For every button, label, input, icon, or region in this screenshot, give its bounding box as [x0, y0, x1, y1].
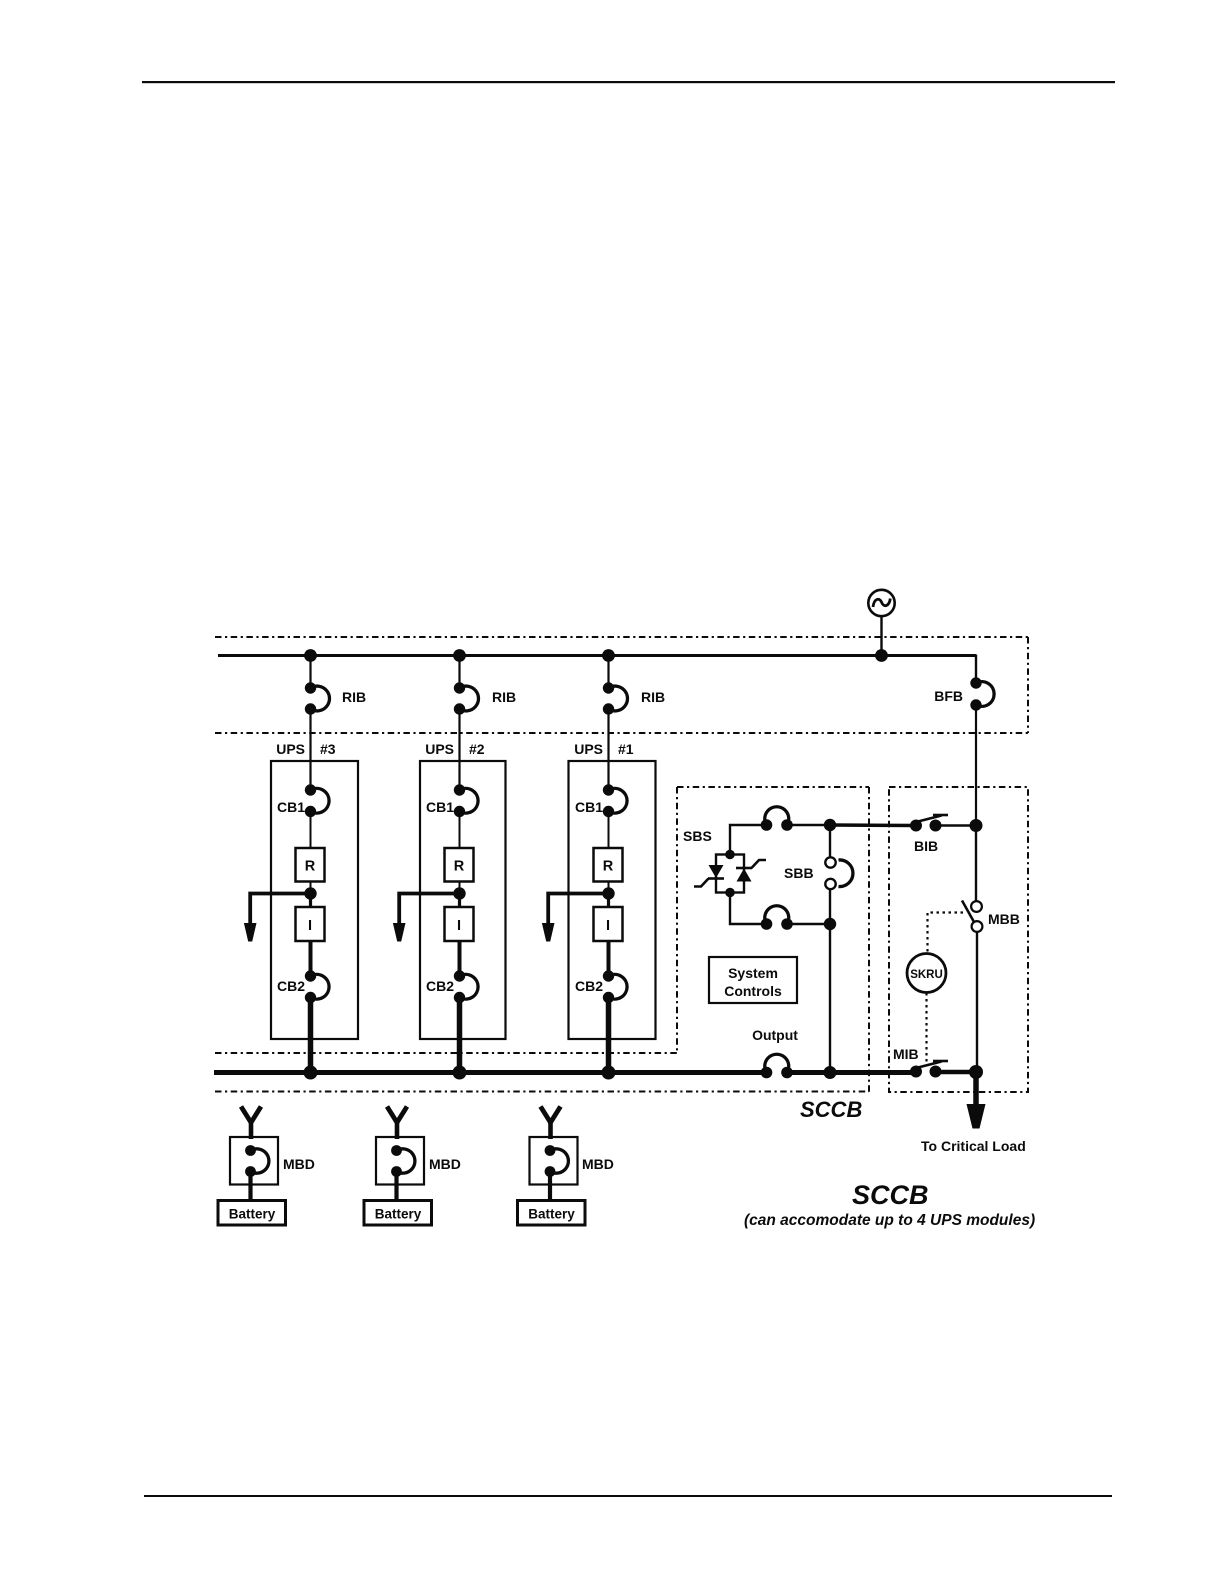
top page rule — [142, 81, 1115, 83]
wire CB1 to rectifier (UPS2) — [459, 812, 461, 849]
rectifier R (UPS3) — [296, 848, 325, 882]
breaker CB1 (UPS3) — [277, 784, 329, 817]
svg-text:CB2: CB2 — [575, 978, 603, 994]
svg-text:#3: #3 — [320, 741, 336, 757]
svg-text:UPS: UPS — [425, 741, 454, 757]
wire RIB to UPS3 CB1 — [309, 709, 311, 790]
AC source U-src — [868, 590, 894, 616]
svg-text:UPS: UPS — [276, 741, 305, 757]
thyristor pair (static switch) — [694, 850, 766, 898]
svg-text:SKRU: SKRU — [910, 969, 943, 981]
wire SBS-top right leg to node — [787, 824, 830, 826]
wire CB1 to rectifier (UPS3) — [310, 812, 312, 849]
node output bus / UPS2 — [453, 1066, 467, 1080]
wire inverter to CB2 (UPS3) — [309, 941, 313, 976]
wire SBS-bottom left leg — [730, 893, 767, 925]
svg-text:SCCB: SCCB — [800, 1097, 862, 1122]
wire node to inverter (UPS1) — [607, 894, 610, 908]
breaker CB1 (UPS1) — [575, 784, 627, 817]
wire MBD to battery 3 — [248, 1172, 252, 1202]
UPS module 3 enclosure — [271, 741, 358, 1039]
node output bus / UPS3 — [304, 1066, 318, 1080]
node DC link (UPS1) — [602, 887, 614, 899]
svg-text:Battery: Battery — [528, 1207, 575, 1222]
switch BIB — [910, 815, 948, 854]
wire inverter to CB2 (UPS1) — [607, 941, 611, 976]
svg-text:RIB: RIB — [492, 689, 516, 705]
svg-text:(can accomodate up to 4 UPS mo: (can accomodate up to 4 UPS modules) — [744, 1212, 1035, 1229]
wire SBB to bottom node — [829, 889, 831, 924]
svg-text:MBD: MBD — [429, 1156, 461, 1172]
input bus wire — [218, 654, 976, 657]
svg-text:I: I — [457, 918, 461, 934]
svg-text:I: I — [606, 918, 610, 934]
wire source to input bus — [880, 616, 882, 655]
wire MBD to battery 1 — [548, 1172, 552, 1202]
svg-text:#2: #2 — [469, 741, 485, 757]
battery string 3: disconnect fork — [241, 1107, 261, 1140]
wire BIB to vertical feeder — [936, 824, 977, 827]
svg-text:MBD: MBD — [283, 1156, 315, 1172]
svg-text:R: R — [454, 859, 465, 875]
wire CB2 to output bus (UPS1) — [606, 998, 612, 1075]
svg-text:CB1: CB1 — [426, 799, 454, 815]
breaker CB2 (UPS1) — [575, 970, 627, 1003]
breaker MBD (battery 2) — [376, 1137, 461, 1185]
breaker CB2 (UPS2) — [426, 970, 478, 1003]
wire RIB to UPS2 CB1 — [458, 709, 460, 790]
static bypass dash-dot box — [677, 787, 869, 1092]
svg-text:BFB: BFB — [934, 688, 963, 704]
breaker SBS-top — [761, 807, 793, 831]
wire node to BIB — [830, 823, 916, 827]
svg-text:I: I — [308, 918, 312, 934]
wire CB2 to output bus (UPS3) — [308, 998, 314, 1075]
switch MBB (open) — [962, 901, 1020, 932]
wire MIB to output node — [936, 1070, 977, 1075]
svg-text:System: System — [728, 965, 778, 981]
wire R to node (UPS3) — [310, 882, 312, 895]
node critical load tap — [969, 1065, 983, 1079]
output bus wire (left of MIB) — [214, 1070, 767, 1075]
wire R to node (UPS1) — [608, 882, 610, 895]
inverter I (UPS1) — [594, 907, 623, 941]
node input bus / source tap — [875, 649, 888, 662]
wire SBS-top left leg — [730, 825, 767, 855]
switch MIB — [893, 1046, 948, 1078]
breaker SBB (open) — [784, 857, 853, 889]
breaker Output — [761, 1054, 793, 1078]
breaker RIB (UPS1 feed) — [603, 655, 665, 715]
battery string 2: disconnect fork — [387, 1107, 407, 1140]
UPS area lower dash-dot boundary — [215, 1052, 677, 1054]
wire CB2 to output bus (UPS2) — [457, 998, 463, 1075]
svg-text:R: R — [305, 859, 316, 875]
node DC link (UPS2) — [453, 887, 465, 899]
control dotted line MBB to SKRU — [928, 913, 964, 954]
wire node down to MBB — [975, 826, 977, 902]
svg-text:Controls: Controls — [724, 983, 782, 999]
wire inverter to CB2 (UPS2) — [458, 941, 462, 976]
wire node to inverter (UPS3) — [309, 894, 312, 908]
UPS module 2 enclosure — [420, 741, 506, 1039]
svg-text:UPS: UPS — [574, 741, 603, 757]
wire node down to SBB — [829, 825, 831, 857]
wire BFB down to BIB node — [975, 705, 977, 826]
input switchgear dash-dot box — [215, 637, 1028, 733]
breaker CB2 (UPS3) — [277, 970, 329, 1003]
wire bus corner down to BFB — [975, 655, 977, 684]
SKRU unit — [907, 954, 946, 993]
svg-text:Battery: Battery — [375, 1207, 422, 1222]
battery 3 — [218, 1201, 286, 1226]
SCCB bottom dash-dot boundary — [215, 1091, 869, 1093]
breaker MBD (battery 1) — [530, 1137, 614, 1185]
wire DC-link arrow to battery bus (UPS3) — [250, 894, 310, 925]
control dotted line SKRU to MIB — [925, 993, 927, 1062]
battery 2 — [364, 1201, 432, 1226]
UPS module 1 enclosure — [569, 741, 656, 1039]
breaker RIB (UPS3 feed) — [305, 655, 366, 715]
node DC link (UPS3) — [304, 887, 316, 899]
wire bypass to output bus — [829, 924, 831, 1073]
node input bus / UPS3 tap — [304, 649, 317, 662]
svg-text:MBD: MBD — [582, 1156, 614, 1172]
node SBS top — [824, 819, 836, 831]
svg-text:MIB: MIB — [893, 1046, 919, 1062]
svg-text:SBB: SBB — [784, 865, 814, 881]
breaker RIB (UPS2 feed) — [454, 655, 516, 715]
inverter I (UPS3) — [296, 907, 325, 941]
svg-text:SCCB: SCCB — [852, 1180, 929, 1210]
svg-text:BIB: BIB — [914, 838, 938, 854]
svg-text:Battery: Battery — [229, 1207, 276, 1222]
rectifier R (UPS2) — [445, 848, 474, 882]
svg-text:RIB: RIB — [641, 689, 665, 705]
wire R to node (UPS2) — [459, 882, 461, 895]
wire DC-link arrow to battery bus (UPS1) — [548, 894, 608, 925]
breaker MBD (battery 3) — [230, 1137, 315, 1185]
wire to critical load arrow — [973, 1072, 979, 1104]
wire SBS-bottom right leg to node — [787, 923, 830, 925]
breaker SBS-bottom — [761, 906, 793, 930]
wire DC-link arrow to battery bus (UPS2) — [399, 894, 459, 925]
rectifier R (UPS1) — [594, 848, 623, 882]
breaker CB1 (UPS2) — [426, 784, 478, 817]
svg-text:MBB: MBB — [988, 911, 1020, 927]
svg-text:CB2: CB2 — [426, 978, 454, 994]
System Controls box — [709, 957, 797, 1003]
svg-text:RIB: RIB — [342, 689, 366, 705]
node output bus / UPS1 — [602, 1066, 616, 1080]
wire MBD to battery 2 — [394, 1172, 398, 1202]
inverter I (UPS2) — [445, 907, 474, 941]
node bypass / output bus — [824, 1066, 837, 1079]
battery 1 — [518, 1201, 586, 1226]
svg-text:CB1: CB1 — [575, 799, 603, 815]
wire node to inverter (UPS2) — [458, 894, 461, 908]
svg-text:R: R — [603, 859, 614, 875]
node input bus / UPS1 tap — [602, 649, 615, 662]
wire MBB to output node — [976, 932, 978, 1073]
SCCB switchboard dash-dot box — [889, 787, 1028, 1092]
wire CB1 to rectifier (UPS1) — [608, 812, 610, 849]
svg-text:To Critical Load: To Critical Load — [921, 1138, 1026, 1154]
node BFB feeder / BIB — [970, 819, 983, 832]
svg-text:CB2: CB2 — [277, 978, 305, 994]
node SBS bottom — [824, 918, 836, 930]
wire RIB to UPS1 CB1 — [607, 709, 609, 790]
svg-text:CB1: CB1 — [277, 799, 305, 815]
node input bus / UPS2 tap — [453, 649, 466, 662]
breaker BFB — [934, 677, 994, 710]
battery string 1: disconnect fork — [541, 1107, 561, 1140]
svg-text:Output: Output — [752, 1027, 798, 1043]
bottom page rule — [144, 1495, 1112, 1497]
svg-text:#1: #1 — [618, 741, 634, 757]
svg-text:SBS: SBS — [683, 828, 712, 844]
